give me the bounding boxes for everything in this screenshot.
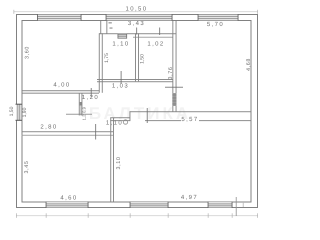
window A top (x37-81) [37,14,82,21]
H3 bottom line right of door gap [145,119,181,122]
H3 step [129,111,132,121]
svg-text:1,90: 1,90 [22,107,28,117]
wall right inner [251,20,252,202]
window B top (x106-172) [106,14,173,21]
door swing symbol near 1,10 [123,120,127,124]
wall top outer [16,14,258,15]
dimension tick t5 (x147 on wall H3) [146,108,149,123]
wall bottom inner [22,202,252,203]
hall south wall H3 thick part top line [130,110,252,113]
svg-text:0,9: 0,9 [82,106,87,112]
wall left outer [16,14,17,208]
window C bottom (x46-88) [46,202,89,209]
dimension tick t3 (x91 at living room door) [90,88,93,97]
long interior wall W4 (x172.5-176) [171,20,174,112]
svg-text:4,97: 4,97 [181,194,198,201]
WC top wall second line T2 [133,36,173,39]
svg-text:1,50: 1,50 [140,54,146,64]
dimension tick t1 (x159.5 at WC top) [158,28,161,36]
svg-text:3,76: 3,76 [168,67,174,80]
top dimension line [14,10,259,13]
dimension tick t0 (x136.5 at bathroom top) [135,28,138,35]
svg-text:3,60: 3,60 [25,46,31,59]
svg-text:1,2: 1,2 [82,114,87,120]
svg-text:1,10: 1,10 [106,119,123,126]
svg-text:4,60: 4,60 [60,194,77,201]
bathroom block bottom wall H1 [97,78,173,81]
svg-text:1,20: 1,20 [82,94,99,101]
svg-text:1,50: 1,50 [9,106,15,116]
window F left (y104-120.5) [16,104,23,121]
svg-text:5,57: 5,57 [181,116,198,123]
svg-text:3,43: 3,43 [128,20,145,27]
svg-text:3,10: 3,10 [116,157,122,170]
W4 hatched section [172,93,176,106]
window G top (x198-238) [198,14,239,21]
dimension tick t7 (x236 on bottom wall) [235,197,238,216]
vent shaft box [118,34,128,39]
dimension tick t6 (x95.5 on kitchen bottom wall) [94,124,97,140]
bathroom/WC divider W2 [134,33,137,81]
wall top inner [22,20,252,21]
bottom dimension line [16,214,258,217]
kitchen bottom wall H4 [22,130,114,133]
small mark in bottom wall x243 [242,202,245,207]
svg-text:1,03: 1,03 [112,82,129,89]
W3 dark section [80,102,82,106]
interior stub wall S1 (top of bathroom block) [99,20,102,34]
svg-text:1,75: 1,75 [104,53,110,63]
wall left inner [22,20,23,202]
svg-text:5,70: 5,70 [207,21,224,28]
bathroom block top wall T1 [99,32,176,35]
dimension tick t4 (y87 on wall W4) [165,86,183,89]
dimension tick t2 (x121 at bathroom bottom) [120,71,123,84]
window E bottom (x208-232) [208,202,233,209]
kitchen door leaf line L1 [66,113,92,116]
wall bottom outer [16,207,258,208]
window D bottom (x130-168) [130,202,169,209]
hall/kitchen wall W3 [78,93,81,116]
svg-text:4,00: 4,00 [53,81,70,88]
door marks near stub [109,22,112,23]
svg-text:2,80: 2,80 [40,123,57,130]
svg-text:3,45: 3,45 [24,161,30,174]
hall south wall H3 left thin part [110,116,130,119]
wall right outer [257,14,258,208]
svg-text:1,02: 1,02 [147,40,164,47]
svg-text:4,68: 4,68 [246,58,252,71]
svg-text:1,10: 1,10 [112,40,129,47]
bathroom left wall W1 [98,33,101,93]
living room bottom wall H2 [22,89,100,92]
svg-text:10,50: 10,50 [125,6,147,13]
bottom middle wall W5 [109,118,112,203]
